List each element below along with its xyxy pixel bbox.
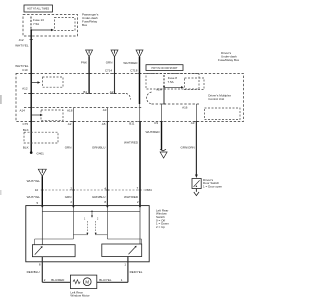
internal dashed partition (fuse/relay section bottom) xyxy=(24,93,126,95)
motor label xyxy=(70,290,89,297)
svg-text:A14: A14 xyxy=(20,109,26,113)
svg-text:PNK: PNK xyxy=(81,61,87,65)
entry arrowheads into switch xyxy=(41,206,43,209)
svg-text:A12: A12 xyxy=(22,87,28,91)
svg-text:RED/BLU: RED/BLU xyxy=(27,270,40,274)
right contact bar xyxy=(102,244,142,257)
svg-text:BLU/YEL: BLU/YEL xyxy=(99,278,112,282)
svg-text:BLK: BLK xyxy=(23,128,29,132)
driver's door switch xyxy=(192,179,201,189)
passenger's fuse box label xyxy=(82,13,99,27)
svg-text:C714: C714 xyxy=(105,69,113,73)
svg-text:BLK: BLK xyxy=(23,145,29,149)
svg-text:RED/YEL: RED/YEL xyxy=(130,270,143,274)
pin 2 (GRN) xyxy=(70,186,75,190)
relay sub-box in passenger's box (dashed) xyxy=(55,18,76,31)
svg-text:Control Unit: Control Unit xyxy=(208,97,224,101)
internal wire A16 to A3 xyxy=(195,104,197,122)
svg-text:GRN: GRN xyxy=(65,195,72,199)
svg-text:C584: C584 xyxy=(145,188,153,192)
svg-text:A5: A5 xyxy=(102,122,106,126)
off-page connector triangle C (WHT/RED feed) xyxy=(136,50,143,57)
fuse 8 sub-box (dashed) xyxy=(146,74,199,90)
svg-text:1 = Door open: 1 = Door open xyxy=(203,184,222,188)
fuse 8 xyxy=(164,75,177,86)
pin ticks on box edges xyxy=(29,74,198,122)
svg-text:HOT IN ON OR START: HOT IN ON OR START xyxy=(152,67,178,70)
svg-text:M: M xyxy=(85,279,89,284)
wire WHT/RED xyxy=(123,57,139,104)
page edge artifact 1 xyxy=(0,95,2,104)
wire GRN from pin A2 down to window switch xyxy=(65,122,74,206)
svg-text:A2: A2 xyxy=(68,122,72,126)
wire fuse 8 to pin A2H xyxy=(163,87,165,105)
svg-text:BLU/RED: BLU/RED xyxy=(51,278,65,282)
arrow from WHT/YEL wire into relay sub-box xyxy=(31,81,40,83)
door switch label xyxy=(203,178,222,188)
svg-text:A2H: A2H xyxy=(156,88,162,92)
svg-text:G401: G401 xyxy=(37,151,45,155)
switch sub-box C (dashed) xyxy=(41,110,63,121)
wire WHT/RED from pin C9 to off-page connector xyxy=(146,122,162,151)
mechanical linkage dashed line 2 xyxy=(95,221,97,235)
relay sub-box A (dashed) xyxy=(43,77,64,87)
svg-text:GRN: GRN xyxy=(106,61,113,65)
wire WHT/YEL from fuse 13 down to control unit xyxy=(30,30,32,122)
connector J12 xyxy=(19,38,33,42)
linkage stub left xyxy=(73,234,87,236)
svg-text:WHT/RED: WHT/RED xyxy=(146,130,161,134)
arrow from WHT/YEL wire into switch sub-box xyxy=(31,114,43,116)
wire GRN xyxy=(106,57,115,94)
hot at all times box xyxy=(24,5,53,12)
off-page connector triangle D (GRN feed) xyxy=(111,50,118,57)
linkage stub right xyxy=(96,234,108,236)
svg-text:2 = Up: 2 = Up xyxy=(156,225,165,229)
relay sub-box B (dashed) xyxy=(185,78,205,90)
junction node xyxy=(91,211,93,218)
svg-text:A3: A3 xyxy=(103,108,107,112)
left rear window motor xyxy=(70,275,96,288)
svg-text:Window Motor: Window Motor xyxy=(70,294,89,298)
svg-text:GRN/BLU: GRN/BLU xyxy=(92,195,105,199)
rail to left contact xyxy=(35,239,74,245)
svg-text:C10: C10 xyxy=(22,68,28,72)
wire WHT/RED from pin B11 down to window switch xyxy=(124,122,140,206)
off-page connector triangle E (PNK feed) xyxy=(86,50,93,57)
fuse 13 xyxy=(31,17,44,30)
internal wire A18 to A2 xyxy=(72,108,74,122)
svg-text:10: 10 xyxy=(35,188,39,192)
partition end hook xyxy=(126,94,131,100)
svg-text:GRN/BLU: GRN/BLU xyxy=(92,146,105,150)
svg-text:7.5A: 7.5A xyxy=(168,80,174,84)
svg-text:7.5A: 7.5A xyxy=(33,22,39,26)
connector detail box (dashed) xyxy=(24,132,58,143)
hot in on or start box xyxy=(146,65,183,71)
fuse 8 node dot and arrow xyxy=(163,86,184,89)
svg-text:WHT/RED: WHT/RED xyxy=(123,61,138,65)
page edge artifact 2 xyxy=(0,190,2,195)
section joining curve xyxy=(147,92,152,104)
wire GRN/ORN from pin A3 down to door switch xyxy=(181,122,198,179)
svg-text:A3: A3 xyxy=(191,121,195,125)
wire BLK to ground xyxy=(30,122,32,153)
svg-text:WHT/YEL: WHT/YEL xyxy=(15,44,29,48)
svg-text:WHT/YEL: WHT/YEL xyxy=(27,195,41,199)
svg-text:WHT/RED: WHT/RED xyxy=(124,141,139,145)
svg-text:WHT/RED: WHT/RED xyxy=(124,195,139,199)
svg-text:Fuse/Relay Box: Fuse/Relay Box xyxy=(218,58,240,62)
door switch ground xyxy=(194,189,199,196)
svg-text:C75: C75 xyxy=(22,122,28,126)
wire into right contact bar xyxy=(139,208,141,244)
wire PNK xyxy=(81,57,89,94)
svg-text:B11: B11 xyxy=(129,122,134,126)
svg-text:GRN/ORN: GRN/ORN xyxy=(181,145,195,149)
driver's multiplex control unit outer box (dashed) xyxy=(16,74,244,122)
pin 7 (WHT/RED) xyxy=(137,186,142,190)
fuse 13 output node dot and arrow xyxy=(30,29,54,32)
wire into left contact bar xyxy=(41,208,43,245)
svg-text:A18: A18 xyxy=(67,109,73,113)
svg-text:WHT/YEL: WHT/YEL xyxy=(15,64,29,68)
right section line xyxy=(152,103,200,105)
wire GRN/BLU from pin A5 down to window switch xyxy=(92,122,107,206)
svg-text:C9: C9 xyxy=(154,121,158,125)
switch sub-box D (dashed) xyxy=(205,108,241,120)
off-page connector triangle A (WHT/YEL feed) xyxy=(38,169,46,176)
mechanical linkage dashed line 1 xyxy=(86,221,88,235)
passenger's under-dash fuse/relay box (dashed) xyxy=(23,15,78,37)
off-page connector triangle B (C9 wire) xyxy=(160,149,167,158)
svg-text:C718: C718 xyxy=(130,69,138,73)
pin 4 (GRN/BLU) xyxy=(104,186,109,190)
wire WHT/YEL down to window switch xyxy=(27,176,43,205)
driver's multiplex control unit label xyxy=(207,92,237,101)
ground G401 xyxy=(30,151,44,155)
svg-text:A16: A16 xyxy=(182,106,188,110)
svg-text:J12: J12 xyxy=(19,38,24,42)
switch internal wire right xyxy=(106,208,108,239)
left contact bar xyxy=(32,245,75,257)
internal wire to B11 xyxy=(139,104,141,122)
switch internal top rail xyxy=(42,210,140,212)
window switch label xyxy=(156,208,169,229)
left rear window switch box xyxy=(26,206,149,262)
wire RED/YEL from switch to motor xyxy=(97,257,143,283)
svg-text:HOT AT ALL TIMES: HOT AT ALL TIMES xyxy=(27,8,49,11)
rail to right contact xyxy=(107,239,141,244)
connector C584 row (dashed) xyxy=(45,188,152,192)
svg-text:Box: Box xyxy=(82,23,88,27)
internal dashed bus line xyxy=(24,107,142,109)
switch internal wire left xyxy=(72,208,74,239)
internal wire to C9 xyxy=(161,104,163,122)
pin 10 xyxy=(35,188,44,192)
svg-text:GRN: GRN xyxy=(65,146,72,150)
driver's under-dash fuse/relay box label xyxy=(218,51,240,62)
svg-text:WHT/YEL: WHT/YEL xyxy=(27,179,41,183)
internal wire A3 to A5 xyxy=(106,108,108,122)
wire RED/BLU from switch to motor xyxy=(27,257,71,283)
svg-text:B1: B1 xyxy=(83,90,87,94)
